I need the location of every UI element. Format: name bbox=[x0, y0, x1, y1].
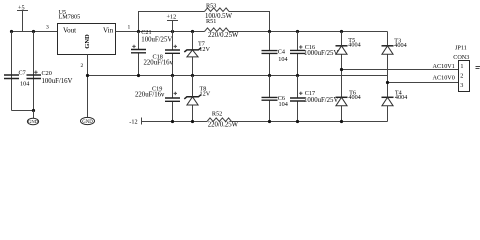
capacitor C21 bbox=[138, 32, 140, 76]
svg-text:2: 2 bbox=[81, 63, 84, 69]
wire to ground bbox=[33, 111, 35, 119]
svg-text:4004: 4004 bbox=[395, 94, 407, 101]
svg-text:100uF/25V: 100uF/25V bbox=[141, 37, 172, 44]
svg-text:+12: +12 bbox=[167, 14, 177, 21]
svg-text:CON3: CON3 bbox=[453, 54, 469, 61]
wire -12 rail bbox=[142, 121, 208, 123]
diode T5 bbox=[341, 32, 343, 70]
svg-text:C20: C20 bbox=[42, 70, 52, 77]
node dot T3/T4 bbox=[386, 81, 389, 84]
zener T8 bbox=[192, 76, 194, 122]
svg-text:R53: R53 bbox=[206, 2, 216, 9]
svg-text:GND: GND bbox=[84, 34, 91, 49]
svg-text:220/0.25W: 220/0.25W bbox=[208, 32, 239, 39]
node dot join bbox=[32, 109, 35, 112]
svg-text:12V: 12V bbox=[199, 46, 210, 53]
svg-text:1000uF/25V: 1000uF/25V bbox=[304, 50, 338, 57]
capacitor C6 bbox=[269, 76, 271, 122]
node dots main rail bbox=[137, 30, 140, 33]
svg-text:3: 3 bbox=[46, 24, 49, 30]
capacitor C19 bbox=[172, 76, 174, 122]
svg-text:4004: 4004 bbox=[348, 42, 360, 49]
zener T7 bbox=[192, 32, 194, 76]
svg-text:AC10V1: AC10V1 bbox=[433, 63, 455, 70]
node dot pin2/mid bbox=[86, 74, 89, 77]
diode T6 bbox=[341, 70, 343, 122]
diode T3 bbox=[387, 32, 389, 98]
svg-text:C7: C7 bbox=[19, 70, 26, 77]
svg-text:GND: GND bbox=[28, 119, 39, 124]
wire bottom join bbox=[12, 110, 34, 112]
capacitor C18 bbox=[172, 32, 174, 76]
svg-text:LM7805: LM7805 bbox=[59, 14, 81, 21]
svg-text:1: 1 bbox=[460, 63, 463, 70]
ground GND center bbox=[81, 117, 95, 124]
resistor R52 bbox=[207, 118, 232, 122]
svg-text:100/0.5W: 100/0.5W bbox=[205, 13, 233, 20]
wire -raw rail bbox=[232, 121, 388, 123]
svg-text:C4: C4 bbox=[278, 49, 285, 56]
svg-text:JP11: JP11 bbox=[455, 45, 467, 52]
svg-text:1: 1 bbox=[128, 24, 131, 30]
svg-text:R52: R52 bbox=[212, 110, 222, 117]
svg-text:1000uF/25V: 1000uF/25V bbox=[304, 97, 338, 104]
capacitor C7 bbox=[4, 75, 19, 79]
regulator U5 LM7805 bbox=[58, 24, 116, 55]
svg-text:C21: C21 bbox=[141, 29, 151, 36]
svg-text:220uF/16v: 220uF/16v bbox=[144, 60, 174, 67]
wire U5 pin2 bbox=[87, 55, 89, 118]
wire C7 rail bbox=[11, 32, 13, 111]
wire +5 rail bbox=[12, 31, 58, 33]
svg-text:100uF/16V: 100uF/16V bbox=[42, 78, 73, 85]
capacitor C16 bbox=[297, 32, 299, 76]
svg-text:AC10V0: AC10V0 bbox=[433, 75, 455, 82]
svg-text:220uF/16v: 220uF/16v bbox=[135, 91, 165, 98]
wire GND mid rail bbox=[88, 75, 388, 77]
node dots mid rail bbox=[137, 74, 140, 77]
svg-text:GND: GND bbox=[82, 120, 93, 125]
pin stub marks bbox=[476, 67, 480, 69]
node dot T5/T6 bbox=[340, 68, 343, 71]
svg-text:220/0.25W: 220/0.25W bbox=[208, 122, 239, 129]
node dot C20 rail bbox=[32, 30, 35, 33]
svg-text:3: 3 bbox=[460, 82, 463, 89]
svg-text:Vout: Vout bbox=[63, 27, 76, 35]
wire C20 rail bbox=[33, 32, 35, 111]
svg-text:4004: 4004 bbox=[394, 42, 406, 49]
svg-text:4004: 4004 bbox=[348, 94, 360, 101]
diode T4 bbox=[382, 96, 394, 98]
svg-text:2: 2 bbox=[460, 72, 463, 79]
ground GND left bbox=[27, 118, 38, 124]
wire Vin to rail bbox=[116, 31, 205, 33]
svg-text:104: 104 bbox=[278, 56, 287, 63]
svg-text:Vin: Vin bbox=[103, 27, 114, 35]
svg-text:-12: -12 bbox=[129, 119, 137, 126]
wire AC10V1 bbox=[342, 69, 459, 71]
resistor R51 bbox=[205, 28, 230, 32]
wire R53 branch bbox=[139, 12, 270, 32]
node dot C7 rail bbox=[10, 30, 13, 33]
wire after R51 bbox=[229, 31, 388, 33]
svg-text:12V: 12V bbox=[200, 91, 211, 98]
capacitor C20 bbox=[27, 75, 42, 79]
node dots -12 rail bbox=[171, 120, 174, 123]
svg-text:104: 104 bbox=[20, 81, 29, 88]
capacitor C17 bbox=[297, 76, 299, 122]
capacitor C5 bbox=[269, 32, 271, 76]
resistor R53 bbox=[205, 8, 230, 12]
svg-text:104: 104 bbox=[279, 101, 288, 108]
wire AC10V0 bbox=[388, 82, 459, 84]
